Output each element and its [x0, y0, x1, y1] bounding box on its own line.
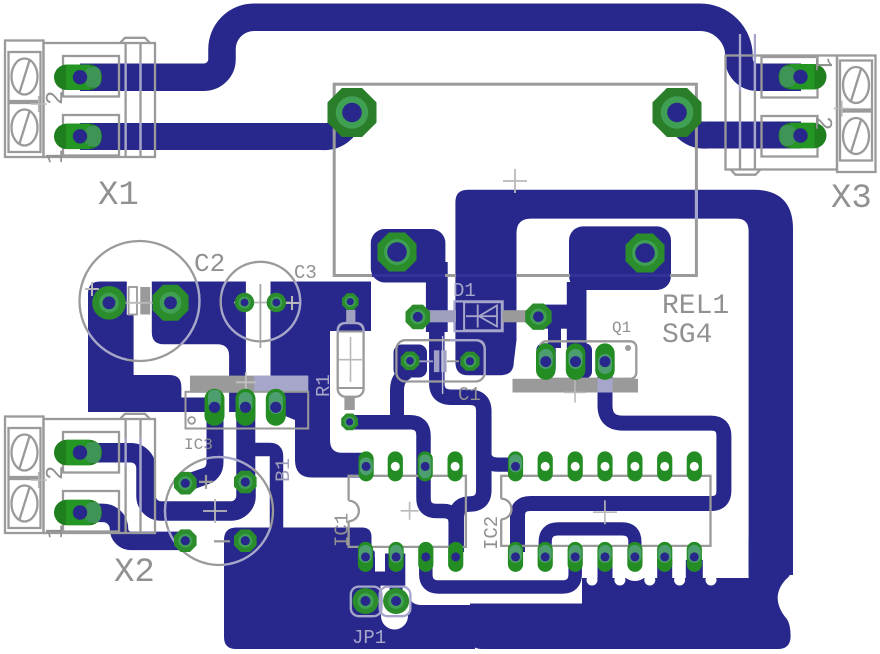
plane region around C2 left pad — [88, 282, 134, 413]
svg-text:REL1: REL1 — [662, 291, 729, 322]
diode D1 leads — [424, 310, 456, 322]
pad REL1.P3 — [378, 233, 417, 272]
pad C2.minus — [153, 285, 189, 321]
resistor R1 top lead — [346, 310, 355, 323]
IC IC2 origin cross — [593, 500, 617, 524]
slab clearance channel under IC1-IC2 wire — [424, 594, 571, 604]
wire IC3.1 down to B1 ac1 — [186, 407, 215, 483]
pads IC3 — [205, 389, 225, 426]
silk over copper fixes — [124, 63, 126, 91]
svg-text:C2: C2 — [194, 249, 225, 279]
pad X1.2 — [54, 65, 102, 91]
capacitor C1 outline — [396, 340, 484, 381]
capacitor C3 cross lines — [234, 302, 290, 304]
wire X2.1 to B1 minus pad — [80, 513, 186, 541]
pad C3.minus — [235, 293, 254, 312]
bridge B1 minus — [214, 540, 230, 542]
svg-text:D1: D1 — [453, 280, 476, 302]
wire REL1.P3 down through C1 gap to IC2.t1 and IC1.b4 — [437, 270, 484, 552]
svg-text:IC1: IC1 — [332, 513, 354, 547]
slab scallops between IC2 pad bumps — [587, 575, 598, 586]
capacitor C2 plus — [85, 282, 99, 296]
node REL1 pad P3 region — [371, 229, 446, 283]
bridge B1 origin cross — [203, 499, 227, 523]
plane region C2 right / C3 left — [152, 282, 246, 413]
svg-text:Q1: Q1 — [612, 319, 631, 337]
wire junction down to ground slab — [250, 450, 277, 531]
svg-text:1: 1 — [808, 57, 835, 71]
wire B1 ac2 up to IC3.2 — [236, 407, 255, 482]
wire REL1.P3 lobe foot — [426, 262, 448, 332]
svg-text:X3: X3 — [831, 180, 872, 218]
wire JP1.1 up to IC1.b1 — [356, 557, 375, 598]
IC IC2 outline — [501, 476, 710, 546]
transistor Q1 outline — [540, 341, 636, 379]
svg-text:R1: R1 — [313, 374, 335, 397]
pad X2.2 — [54, 440, 102, 466]
pads JP1 — [353, 588, 379, 614]
pad C1.1 — [401, 352, 420, 371]
IC IC1 outline — [349, 476, 466, 547]
regulator IC3 outline — [186, 392, 309, 429]
svg-text:IC3: IC3 — [184, 436, 213, 454]
resistor R1 body — [339, 331, 363, 396]
transistor Q1 tab — [513, 379, 639, 393]
pad X1.1 — [54, 124, 102, 150]
bridge B1 plus — [199, 475, 213, 489]
svg-text:C1: C1 — [458, 384, 481, 406]
svg-text:2: 2 — [808, 116, 835, 130]
wire X1.2 to top rail to X3.1 — [80, 17, 801, 77]
svg-text:2: 2 — [43, 466, 70, 480]
pad D1 cathode — [525, 304, 551, 330]
svg-text:C3: C3 — [294, 262, 317, 284]
wire Q1.3 elbow to IC2.b1 — [518, 366, 724, 552]
pad R1.1 — [342, 293, 359, 310]
via D1 anode — [406, 305, 431, 330]
regulator IC3 tab — [190, 376, 308, 392]
wire R1.2 right and down through IC1.t3 to IC1.b4 — [352, 422, 456, 552]
pads IC2 bottom row — [508, 542, 523, 572]
svg-text:JP1: JP1 — [352, 627, 386, 649]
pad R1.2 — [341, 414, 358, 431]
regulator IC3 origin cross — [236, 372, 256, 392]
via V2 (REL1 pin) — [653, 88, 702, 137]
wire JP1.2 up to IC1.b2 — [390, 557, 403, 598]
via V1 (REL1 pin) — [328, 88, 377, 137]
connector X2 silk — [5, 414, 155, 533]
wire REL1 tee bar, right rail and leg to D1/C1 — [455, 190, 793, 575]
pad X3.2 — [779, 123, 827, 149]
svg-text:SG4: SG4 — [662, 320, 712, 351]
IC IC1 origin cross — [401, 502, 419, 520]
capacitor C2 polarity bars — [129, 287, 137, 315]
pad X3.1 — [779, 64, 827, 90]
pads B1 — [174, 472, 197, 495]
pad X2.1 — [54, 500, 102, 526]
relay REL1 outline — [334, 84, 696, 275]
wire IC2.b2 to IC2.b5 — [545, 529, 635, 553]
diode D1 symbol — [466, 315, 497, 317]
slab clearance slots around IC1/JP1 — [375, 527, 385, 572]
pad C2.plus — [92, 286, 126, 320]
svg-text:IC2: IC2 — [481, 516, 503, 550]
diode D1 outline — [455, 301, 503, 331]
pads IC1 top row — [359, 451, 374, 481]
plane region C3 right down to IC3.3 — [271, 282, 372, 478]
pad C1.2 — [460, 352, 479, 371]
svg-text:B1: B1 — [273, 458, 296, 482]
svg-text:2: 2 — [43, 91, 70, 105]
resistor R1 bottom lead — [344, 397, 354, 410]
node REL1 pad P4 region — [569, 226, 671, 290]
slab clearance pocket around IC2.b5 — [620, 551, 650, 581]
connector X3 silk — [726, 56, 876, 175]
svg-text:1: 1 — [43, 525, 70, 539]
ground plane slab right section with notch — [470, 540, 793, 649]
wire X1.1 to via V1 — [80, 114, 350, 137]
capacitor C3 plus — [285, 296, 299, 310]
wire bumps IC2 pads into slab — [598, 560, 613, 578]
wire X2.2 to B1 ac2 — [80, 453, 246, 511]
pad C3.plus — [267, 293, 286, 312]
ground plane slab left lobe — [224, 528, 475, 650]
wire C1 left pad down to R1 net — [397, 372, 408, 416]
jumper JP1 outline — [351, 587, 382, 617]
svg-text:X1: X1 — [98, 177, 139, 215]
connector X1 silk — [5, 38, 155, 157]
pad REL1.P4 — [626, 234, 665, 273]
pads IC1 bottom row — [358, 542, 373, 572]
svg-text:1: 1 — [43, 150, 70, 164]
wire D1 cathode to relay leg and Q1 patches — [538, 305, 582, 329]
relay REL1 origin cross — [503, 169, 527, 193]
pads Q1 — [536, 343, 556, 380]
svg-text:X2: X2 — [114, 554, 155, 592]
capacitor C1 plates — [434, 350, 440, 372]
resistor R1 top cap over copper — [338, 323, 364, 332]
pads IC2 top row — [508, 451, 523, 481]
wire plane bottom bar to IC3.1 — [88, 375, 216, 412]
wire IC1.b3 to IC2.b3 — [426, 555, 575, 587]
wire C1 left lobe — [394, 345, 428, 378]
wire X3.2 to via V2 — [679, 114, 801, 135]
transistor Q1 origin cross — [574, 380, 576, 403]
